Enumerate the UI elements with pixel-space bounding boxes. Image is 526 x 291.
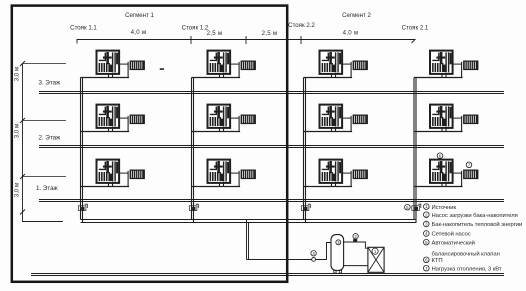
label Riser 1.1 bbox=[70, 25, 97, 32]
balancing valve at riser 2.1 bbox=[412, 204, 421, 211]
wire: basement supply main bbox=[81, 219, 417, 221]
annotation circle 1 bbox=[372, 248, 378, 254]
svg-text:КТП: КТП bbox=[432, 258, 443, 264]
wire: drop from mains to heat centre bbox=[247, 220, 249, 260]
annotation circle 7 (heating load radiator) bbox=[466, 162, 472, 168]
radiator riser 1.1 floor 1 bbox=[130, 170, 145, 179]
riser 2.1 (supply/return pair) bbox=[414, 78, 416, 223]
wire: floor pipe riser 2.2 floor 2 bbox=[304, 116, 353, 132]
radiator riser 2.2 floor 1 bbox=[353, 170, 368, 179]
annotation circle 3 bbox=[336, 240, 341, 245]
legend item 3 bbox=[424, 221, 523, 228]
heat interface unit box riser 1.1 floor 1 bbox=[97, 160, 120, 183]
dimension label 4,0 m bbox=[131, 29, 147, 36]
wire: floor pipe riser 2.1 floor 1 bbox=[414, 171, 463, 187]
dimension label 3,0 m (floor 2) bbox=[14, 124, 21, 138]
legend item 1 bbox=[424, 204, 457, 211]
heat interface unit box riser 1.2 floor 3 bbox=[208, 51, 231, 74]
wire: basement return main bbox=[81, 222, 417, 224]
floor slab lines level 3 bbox=[39, 92, 504, 94]
svg-text:3. Этаж: 3. Этаж bbox=[39, 80, 62, 87]
basement floor line bbox=[31, 274, 504, 276]
svg-text:Стояк 2.1: Стояк 2.1 bbox=[402, 25, 429, 32]
riser 1.1 (supply/return pair) bbox=[81, 78, 83, 223]
svg-text:2. Этаж: 2. Этаж bbox=[39, 135, 62, 142]
balancing valve at riser 1.2 bbox=[189, 204, 198, 211]
legend item 7 bbox=[424, 265, 502, 272]
wire: pipe to network pump bbox=[247, 243, 332, 260]
annotation circle 5 (balancing valve) bbox=[405, 204, 411, 210]
radiator riser 2.1 floor 2 bbox=[464, 115, 479, 124]
radiator riser 1.2 floor 2 bbox=[241, 115, 256, 124]
riser 2.2 (supply/return pair) bbox=[304, 78, 306, 223]
storage tank (3) bbox=[331, 235, 344, 273]
radiator riser 2.1 floor 3 bbox=[464, 61, 479, 70]
dimension label 2,5 m bbox=[207, 30, 223, 37]
heat interface unit box riser 2.2 floor 1 bbox=[320, 160, 343, 183]
radiator riser 2.2 floor 3 bbox=[353, 61, 368, 70]
dimension label 3,0 m (floor 3) bbox=[14, 67, 21, 81]
segment 1 boundary frame bbox=[12, 6, 287, 282]
radiator riser 1.2 floor 1 bbox=[241, 170, 256, 179]
wire: tank bottom to source bbox=[344, 265, 368, 267]
floor slab lines level 2 bbox=[39, 146, 504, 148]
heat interface unit box riser 1.1 floor 2 bbox=[97, 105, 120, 128]
label floor 1 bbox=[36, 185, 59, 192]
svg-text:2,5 м: 2,5 м bbox=[207, 30, 223, 37]
balancing valve at riser 1.1 bbox=[78, 204, 87, 211]
wire: floor pipe riser 2.1 floor 2 bbox=[414, 116, 463, 132]
svg-text:3,0 м: 3,0 м bbox=[14, 67, 21, 81]
label Riser 1.2 bbox=[182, 25, 209, 32]
radiator riser 2.1 floor 1 bbox=[464, 170, 479, 179]
wire: floor pipe riser 2.1 floor 3 bbox=[414, 62, 463, 78]
svg-text:3,0 м: 3,0 м bbox=[14, 183, 21, 197]
heat interface unit box riser 2.1 floor 1 bbox=[430, 160, 453, 183]
svg-text:1. Этаж: 1. Этаж bbox=[36, 185, 59, 192]
legend item 4 bbox=[424, 231, 471, 238]
radiator riser 2.2 floor 2 bbox=[353, 115, 368, 124]
label Segment 1 bbox=[125, 12, 154, 19]
left vertical dimension line bbox=[20, 61, 66, 222]
legend item 6 bbox=[424, 257, 443, 264]
wire: floor pipe riser 1.1 floor 3 bbox=[81, 62, 130, 78]
wire: floor pipe riser 1.1 floor 1 bbox=[81, 171, 130, 187]
balancing valve at riser 2.2 bbox=[301, 204, 310, 211]
label Riser 2.2 bbox=[288, 22, 315, 29]
svg-text:Стояк 1.2: Стояк 1.2 bbox=[182, 25, 209, 32]
svg-text:Сетевой насос: Сетевой насос bbox=[432, 231, 471, 238]
dimension label 4,0 m (second) bbox=[343, 30, 359, 37]
floor slab lines level 1 bbox=[39, 200, 504, 202]
top dimension line with ticks bbox=[77, 36, 415, 44]
wire: floor pipe riser 1.2 floor 3 bbox=[192, 62, 241, 78]
heat interface unit box riser 2.2 floor 3 bbox=[320, 51, 343, 74]
svg-text:Сегмент 1: Сегмент 1 bbox=[125, 12, 154, 19]
wire: floor pipe riser 2.2 floor 3 bbox=[304, 62, 353, 78]
label Segment 2 bbox=[342, 12, 371, 19]
heat interface unit box riser 1.2 floor 2 bbox=[208, 105, 231, 128]
wire: tank to loading pump bbox=[344, 242, 368, 248]
svg-text:Бак-накопитель тепловой энерги: Бак-накопитель тепловой энергии bbox=[432, 221, 523, 228]
svg-text:Автоматический: Автоматический bbox=[432, 239, 475, 246]
label floor 3 bbox=[39, 80, 62, 87]
dimension label 2,5 m (second) bbox=[262, 30, 278, 37]
dimension label 3,0 m (floor 1) bbox=[14, 183, 21, 197]
annotation circle 6 (KTP unit) bbox=[437, 153, 443, 159]
riser 1.2 (supply/return pair) bbox=[192, 78, 194, 223]
svg-text:балансировочный клапан: балансировочный клапан bbox=[432, 250, 500, 257]
legend item 2 bbox=[424, 212, 518, 219]
heat interface unit box riser 1.1 floor 3 bbox=[97, 51, 120, 74]
svg-text:4,0 м: 4,0 м bbox=[131, 29, 147, 36]
radiator riser 1.2 floor 3 bbox=[241, 61, 256, 70]
radiator riser 1.1 floor 3 bbox=[130, 61, 145, 70]
radiator riser 1.1 floor 2 bbox=[130, 115, 145, 124]
ink speck bbox=[160, 68, 165, 70]
svg-text:Источник: Источник bbox=[432, 205, 457, 211]
loading pump (2) bbox=[353, 239, 357, 243]
legend item 5 bbox=[424, 239, 500, 257]
heat interface unit box riser 1.2 floor 1 bbox=[208, 160, 231, 183]
heat interface unit box riser 2.2 floor 2 bbox=[320, 105, 343, 128]
svg-text:Сегмент 2: Сегмент 2 bbox=[342, 12, 371, 19]
svg-text:Стояк 1.1: Стояк 1.1 bbox=[70, 25, 97, 32]
wire: floor pipe riser 1.1 floor 2 bbox=[81, 116, 130, 132]
heat interface unit box riser 2.1 floor 3 bbox=[430, 51, 453, 74]
wire: floor pipe riser 1.2 floor 2 bbox=[192, 116, 241, 132]
heat source (1) crossed box bbox=[368, 247, 384, 272]
svg-text:4,0 м: 4,0 м bbox=[343, 30, 359, 37]
svg-text:2,5 м: 2,5 м bbox=[262, 30, 278, 37]
label Riser 2.1 bbox=[402, 25, 429, 32]
annotation circle 4 bbox=[311, 251, 316, 256]
network pump (4) bbox=[312, 258, 316, 262]
label floor 2 bbox=[39, 135, 62, 142]
svg-text:Стояк 2.2: Стояк 2.2 bbox=[288, 22, 315, 29]
wire: floor pipe riser 1.2 floor 1 bbox=[192, 171, 241, 187]
svg-text:Насос загрузки бака-накопителя: Насос загрузки бака-накопителя bbox=[432, 213, 518, 219]
svg-text:Нагрузка отопления, 3 кВт: Нагрузка отопления, 3 кВт bbox=[432, 266, 502, 272]
annotation circle 2 bbox=[353, 234, 358, 239]
heat interface unit box riser 2.1 floor 2 bbox=[430, 105, 453, 128]
wire: floor pipe riser 2.2 floor 1 bbox=[304, 171, 353, 187]
svg-text:3,0 м: 3,0 м bbox=[14, 124, 21, 138]
